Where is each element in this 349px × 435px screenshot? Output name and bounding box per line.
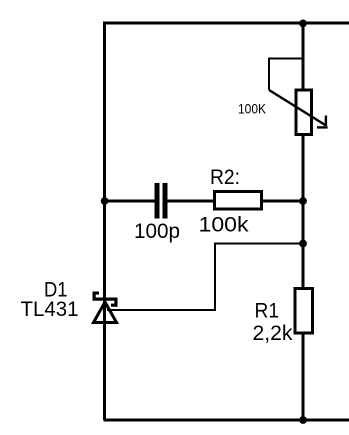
TL431 D1 cathode left hook [93,292,96,301]
wire TL431 ref to node B [107,244,303,311]
wire R2 to right rail [262,200,304,203]
wire top rail [103,22,349,25]
capacitor C1 plate left [155,183,160,219]
resistor R2 body [215,192,262,210]
TL431 D1 anode triangle [94,302,117,323]
wire right rail middle (pot to R1) [302,133,305,289]
junction dot left mid [101,197,109,205]
junction dot node B [299,240,307,248]
capacitor C1 plate right [163,183,168,219]
junction dot top [299,20,307,28]
svg-text:TL431: TL431 [21,298,79,321]
junction dot bottom [299,416,307,424]
TL431 D1 cathode right hook [114,298,117,307]
wire pot wiper link [269,59,303,91]
svg-text:R1: R1 [255,300,280,323]
wire C1 to R2 [168,200,216,203]
potentiometer P1 wiper arrow [269,90,326,126]
wire left rail [103,22,106,420]
wire bottom rail [103,419,349,422]
potentiometer P1 body [296,90,312,135]
svg-text:2,2k: 2,2k [253,322,293,345]
wire right rail lower (R1 to bottom) [302,332,305,420]
svg-text:100k: 100k [199,214,250,237]
wire right rail upper (top to pot) [302,23,305,91]
resistor R1 body [295,289,313,334]
svg-text:100p: 100p [134,220,180,243]
wire mid left (node A to C1) [105,200,155,203]
junction dot R2 right [299,197,307,205]
svg-text:R2:: R2: [210,166,240,189]
svg-text:100K: 100K [238,101,267,117]
TL431 D1 cathode bar [93,298,118,301]
